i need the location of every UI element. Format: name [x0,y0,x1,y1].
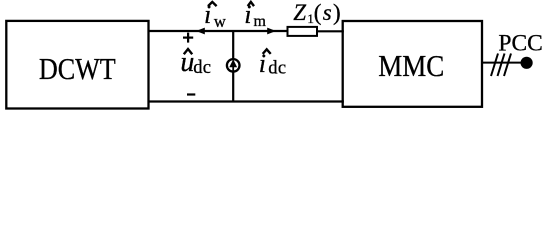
node PCC dot [521,57,533,69]
label i_dc [259,49,287,79]
current source arrow (up) [232,64,234,71]
svg-text:MMC: MMC [378,49,444,83]
svg-text:m: m [254,13,267,30]
label u_dc [180,47,211,78]
wire top: DCWT to resistor [148,30,289,32]
svg-text:DCWT: DCWT [39,53,116,86]
svg-text:dc: dc [268,59,286,79]
label i_m [244,0,266,30]
svg-text:PCC: PCC [498,30,542,56]
current source I_dc (circle) [227,59,240,72]
svg-text:Z: Z [293,0,306,25]
label Z1(s) [293,0,342,26]
arrow i_m (points right) [267,28,276,35]
label i_w [204,0,226,31]
svg-text:(s): (s) [314,0,342,25]
resistor Z1 [288,27,318,36]
block DCWT [6,21,148,109]
svg-text:w: w [214,12,226,31]
wire middle vertical branch [232,31,234,102]
block MMC [343,21,482,107]
three-phase slashes [491,54,511,77]
svg-text:dc: dc [193,58,211,78]
arrow i_w (points left) [196,28,205,35]
plus sign [183,33,193,43]
wire top: resistor to MMC [316,30,344,32]
minus sign [187,93,195,95]
wire MMC to PCC [482,62,524,64]
wire bottom: DCWT to MMC [148,100,344,102]
